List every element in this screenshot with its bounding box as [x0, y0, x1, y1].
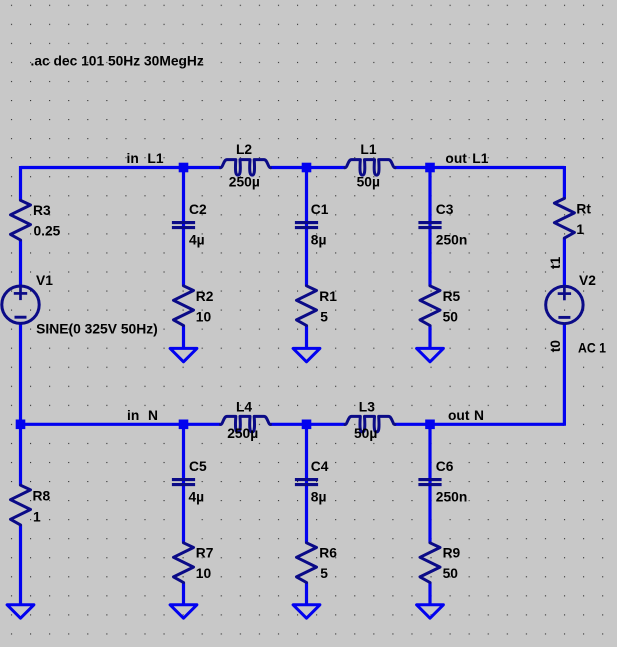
resistor R5	[420, 286, 440, 326]
ground under R6	[293, 605, 320, 618]
svg-text:N: N	[148, 408, 158, 423]
svg-text:C1: C1	[311, 202, 329, 217]
wire right rail: Rt to V2	[563, 238, 566, 287]
wire column1 bottom: junction through C5 to R7	[182, 424, 185, 543]
wire column3 bottom: R9 to ground	[428, 583, 431, 605]
inductor L1	[345, 160, 395, 176]
svg-text:R2: R2	[196, 289, 214, 304]
wire column1 top: R2 to ground	[182, 326, 185, 349]
inductor L2	[221, 160, 271, 176]
wire bottom rail right segment (out_N net)	[395, 423, 564, 426]
svg-text:AC 1: AC 1	[578, 340, 606, 355]
svg-text:250n: 250n	[436, 232, 467, 247]
svg-text:R1: R1	[319, 289, 337, 304]
resistor R6	[297, 543, 317, 583]
resistor R7	[174, 543, 194, 583]
svg-text:N: N	[474, 408, 484, 423]
svg-text:out: out	[445, 151, 467, 166]
svg-text:out: out	[448, 408, 470, 423]
wire column3 top: R5 to ground	[428, 326, 431, 349]
resistor R2	[174, 286, 194, 326]
wire left rail: top rail to R3	[19, 166, 22, 200]
wire left rail: R3 to V1	[19, 240, 22, 287]
svg-text:R6: R6	[319, 545, 337, 560]
svg-text:V1: V1	[36, 273, 53, 288]
wire column2 top: R1 to ground	[305, 326, 308, 349]
svg-text:in: in	[127, 151, 139, 166]
resistor R9	[420, 543, 440, 583]
ground under R2	[170, 348, 197, 361]
svg-text:R5: R5	[443, 289, 461, 304]
resistor Rt	[554, 198, 574, 238]
capacitor C3	[418, 223, 441, 228]
capacitor C2	[172, 223, 195, 228]
svg-text:10: 10	[196, 566, 212, 581]
wire column3 bottom: junction through C6 to R9	[428, 424, 431, 543]
svg-text:8µ: 8µ	[311, 232, 327, 247]
svg-text:C6: C6	[436, 459, 454, 474]
svg-text:L3: L3	[359, 399, 375, 414]
svg-text:250n: 250n	[436, 489, 467, 504]
voltage source V2	[546, 286, 583, 323]
inductor L4	[221, 416, 271, 432]
svg-text:L1: L1	[147, 151, 163, 166]
ground under R9	[417, 605, 444, 618]
svg-text:0.25: 0.25	[34, 224, 61, 239]
svg-text:5: 5	[320, 309, 328, 324]
junction node in_N at column 1	[179, 420, 189, 430]
svg-text:V2: V2	[579, 273, 596, 288]
svg-text:10: 10	[196, 309, 212, 324]
svg-text:in: in	[127, 408, 139, 423]
inductor L3	[345, 416, 395, 432]
svg-text:R3: R3	[33, 203, 51, 218]
junction top rail at column 2	[302, 163, 312, 173]
svg-text:R7: R7	[196, 545, 214, 560]
wire bottom rail left segment (in_N net)	[21, 423, 221, 426]
svg-text:t0: t0	[548, 340, 563, 353]
wire right rail: V2 to bottom rail corner	[563, 323, 566, 426]
svg-text:t1: t1	[548, 256, 563, 269]
junction node out_L1 at column 3	[425, 163, 435, 173]
wire top rail middle segment	[271, 166, 346, 169]
capacitor C1	[295, 223, 318, 228]
capacitor C4	[295, 480, 318, 485]
wire column1 bottom: R7 to ground	[182, 583, 185, 605]
svg-text:1: 1	[576, 222, 584, 237]
svg-text:C4: C4	[311, 459, 329, 474]
svg-text:L1: L1	[472, 151, 488, 166]
svg-text:SINE(0 325V 50Hz): SINE(0 325V 50Hz)	[36, 322, 158, 337]
wire left rail: R8 to ground	[19, 525, 22, 605]
resistor R3	[11, 200, 31, 240]
svg-text:50: 50	[443, 309, 459, 324]
junction bottom rail at column 2	[302, 420, 312, 430]
ground under R1	[293, 348, 320, 361]
wire right rail: top rail to Rt	[563, 166, 566, 198]
svg-text:250µ: 250µ	[227, 426, 258, 441]
svg-text:L4: L4	[236, 399, 252, 414]
svg-text:L2: L2	[236, 142, 252, 157]
junction node out_N at column 3	[425, 420, 435, 430]
wire left rail: V1 to bottom rail junction and R8	[19, 323, 22, 486]
svg-text:C5: C5	[189, 459, 207, 474]
svg-text:C3: C3	[436, 202, 454, 217]
junction node in_L1 at column 1	[179, 163, 189, 173]
ground under R5	[417, 348, 444, 361]
wire top rail left segment (in_L1 net)	[21, 166, 221, 169]
junction node in_N at left rail	[16, 420, 26, 430]
svg-text:50µ: 50µ	[357, 175, 380, 190]
wire column2 bottom: R6 to ground	[305, 583, 308, 605]
svg-text:50µ: 50µ	[354, 426, 377, 441]
voltage source V1	[2, 286, 39, 323]
svg-text:50: 50	[443, 566, 459, 581]
svg-text:C2: C2	[189, 202, 207, 217]
svg-text:Rt: Rt	[576, 201, 591, 216]
wire column2 top: junction through C1 to R1	[305, 168, 308, 286]
wire column2 bottom: junction through C4 to R6	[305, 424, 308, 543]
svg-text:.ac dec 101 50Hz 30MegHz: .ac dec 101 50Hz 30MegHz	[31, 54, 204, 69]
svg-text:L1: L1	[360, 142, 376, 157]
svg-text:4µ: 4µ	[189, 489, 205, 504]
ground under R7	[170, 605, 197, 618]
wire bottom rail middle segment	[271, 423, 346, 426]
svg-text:250µ: 250µ	[229, 175, 260, 190]
svg-text:R8: R8	[33, 489, 51, 504]
svg-text:1: 1	[33, 509, 41, 524]
svg-text:5: 5	[320, 566, 328, 581]
resistor R8	[11, 485, 31, 525]
capacitor C5	[172, 480, 195, 485]
wire column3 top: junction through C3 to R5	[428, 168, 431, 286]
wire top rail right segment (out_L1 net)	[395, 166, 564, 169]
capacitor C6	[418, 480, 441, 485]
svg-text:4µ: 4µ	[189, 232, 205, 247]
wire column1 top: junction through C2 to R2	[182, 168, 185, 286]
ground under R8 (left rail)	[7, 605, 34, 618]
resistor R1	[297, 286, 317, 326]
svg-text:R9: R9	[443, 545, 461, 560]
svg-text:8µ: 8µ	[311, 489, 327, 504]
